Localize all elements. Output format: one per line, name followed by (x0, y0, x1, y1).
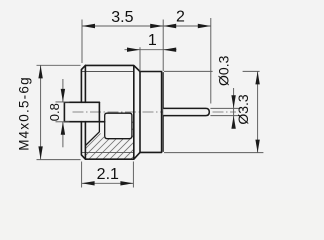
svg-text:1: 1 (148, 32, 157, 49)
svg-text:2: 2 (176, 8, 185, 25)
svg-text:Ø0.3: Ø0.3 (216, 55, 232, 86)
svg-text:Ø3.3: Ø3.3 (235, 94, 251, 125)
svg-text:0.8: 0.8 (47, 103, 62, 121)
svg-text:3.5: 3.5 (111, 9, 133, 26)
svg-text:M4x0.5-6g: M4x0.5-6g (16, 76, 31, 151)
svg-text:2.1: 2.1 (97, 166, 119, 183)
